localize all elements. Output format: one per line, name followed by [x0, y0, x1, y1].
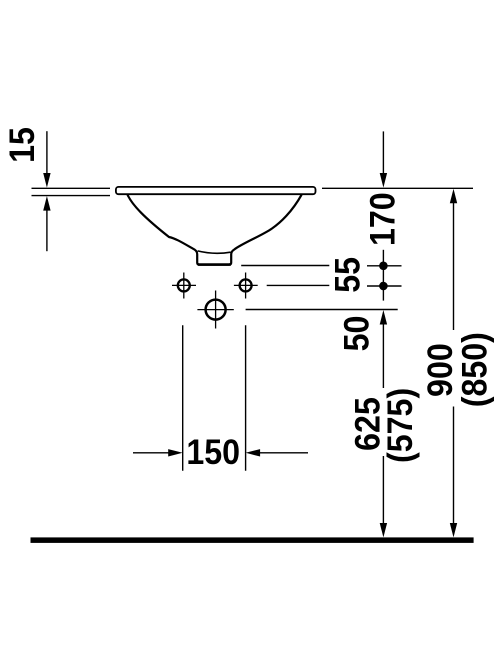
- leader left (150 dim): [133, 452, 169, 454]
- basin rim (cross-section bar): [116, 187, 316, 194]
- arrowhead right (150 dim): [168, 449, 183, 456]
- countertop top surface line (right): [322, 187, 473, 189]
- fixation hole left circle: [178, 279, 190, 291]
- extension line left (150 dim): [182, 325, 184, 470]
- tick line through lower dot: [367, 285, 402, 287]
- svg-text:(575): (575): [382, 388, 421, 463]
- leader from fixation holes row: [267, 284, 330, 286]
- svg-text:170: 170: [365, 192, 404, 246]
- dim line 625 upper segment: [382, 324, 384, 388]
- dim line 170 upper segment: [382, 131, 384, 173]
- arrowhead down (15 dim): [43, 173, 50, 188]
- arrowhead down (170 dim): [380, 173, 387, 188]
- leader from tap hole row: [246, 309, 398, 311]
- tap hole crosshair: [197, 309, 233, 311]
- leader from drain boss bottom: [241, 265, 329, 267]
- svg-text:55: 55: [329, 257, 368, 293]
- arrowhead up (15 dim): [43, 196, 50, 211]
- svg-text:15: 15: [4, 127, 43, 163]
- dim line 900 upper segment: [453, 203, 455, 330]
- dim line 15 lower segment: [46, 210, 48, 251]
- svg-text:(850): (850): [456, 332, 495, 407]
- drain boss bottom thick line: [198, 263, 231, 266]
- dim chain segment through dots: [382, 250, 384, 301]
- chain dot lower: [379, 282, 388, 291]
- arrowhead down (625 dim at floor): [380, 523, 387, 537]
- arrowhead up (625 dim): [380, 310, 387, 325]
- fixation hole right crosshair: [234, 284, 258, 286]
- fixation hole right circle: [240, 279, 252, 291]
- extension line right (150 dim): [245, 325, 247, 470]
- tick line through upper dot: [367, 265, 402, 267]
- floor line: [31, 537, 474, 543]
- countertop top surface line (left): [32, 187, 111, 189]
- svg-text:50: 50: [338, 316, 377, 352]
- chain dot upper: [379, 262, 388, 271]
- arrowhead up (900 dim): [450, 189, 457, 204]
- bowl outline with drain boss: [127, 194, 301, 264]
- countertop bottom surface line (left): [32, 195, 111, 197]
- arrowhead left (150 dim): [246, 449, 261, 456]
- bowl bottom arc across drain boss: [198, 251, 231, 253]
- leader right (150 dim): [260, 452, 309, 454]
- dim line 900 lower segment: [453, 407, 455, 525]
- tap hole circle: [206, 300, 226, 320]
- svg-text:150: 150: [186, 434, 240, 473]
- dim line 625 lower segment: [382, 456, 384, 524]
- svg-text:900: 900: [422, 343, 461, 397]
- arrowhead down (900 dim at floor): [450, 523, 457, 537]
- dim line 15 upper segment: [46, 131, 48, 173]
- fixation hole left crosshair: [172, 284, 196, 286]
